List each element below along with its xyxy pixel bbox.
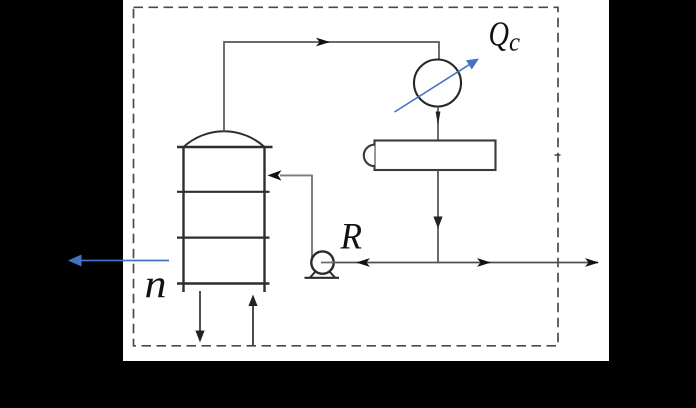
pump R circle [311,251,333,273]
reflux arrowhead into column [268,170,282,180]
svg-text:Q: Q [489,15,510,54]
blue feed arrow [81,260,169,262]
pump base [305,277,340,279]
pipe drum to product header [437,170,439,263]
reflux pipe [280,175,312,259]
overhead pipe arrowhead [316,38,330,47]
arrowhead header outlet [585,258,599,267]
overhead vapour pipe [224,42,439,132]
dashed system boundary [134,7,559,346]
distillate product header [333,262,598,264]
arrowhead mid header [477,258,491,267]
column tray 1 [177,191,270,193]
pipe condenser to drum [437,107,439,141]
condenser duty valve circle [414,60,461,107]
arrowhead toward pump [356,258,370,267]
boilup arrowhead up [248,295,257,307]
column tray 2 [177,237,270,239]
svg-text:c: c [509,28,520,57]
column top rim [177,146,273,148]
white diagram panel [123,0,609,361]
reflux drum body [375,141,496,171]
boundary tick mark [555,154,561,156]
reflux drum left cap [364,145,375,166]
column dome [184,131,265,147]
bottoms arrowhead down [195,331,204,343]
column shell left side [182,147,184,292]
svg-text:n: n [145,261,167,306]
column shell right side [263,147,265,292]
down arrowhead on drum outlet [433,217,442,229]
small arrowhead into drum [436,112,441,127]
pump suction stub [321,262,335,264]
svg-text:R: R [340,217,362,258]
pump legs [310,272,335,278]
blue Qc arrow [395,64,472,112]
column bottom line [177,282,270,284]
boilup return line [252,305,254,346]
bottoms product line [199,291,201,332]
